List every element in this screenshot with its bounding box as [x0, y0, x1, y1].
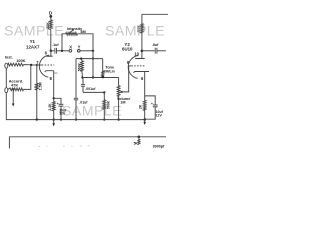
svg-text:Inst.: Inst.	[5, 54, 13, 59]
resistor 560K lower	[103, 92, 106, 119]
capacitor .1uf coupling	[54, 48, 56, 54]
svg-text:SAMPLE: SAMPLE	[4, 23, 64, 39]
op Y1 plate lead	[50, 51, 52, 56]
Y1 plate bar	[47, 55, 53, 57]
wire oscillator top row	[76, 58, 103, 60]
Y2 plate bar	[135, 58, 145, 60]
capacitor .001uf	[82, 78, 84, 85]
capacitor .5uf output	[154, 48, 156, 54]
node B	[92, 76, 94, 78]
ground arrow Y2	[144, 120, 146, 123]
wire plate node to cap	[51, 50, 54, 52]
svg-text:+: +	[151, 102, 153, 106]
wire D to resistor	[50, 16, 52, 19]
ground arrow below bus	[53, 120, 55, 124]
node 1.5M bus	[36, 118, 38, 120]
node Y1 cathode junction	[53, 97, 55, 99]
wire cap to 560K lower	[83, 91, 104, 93]
svg-text:+: +	[57, 102, 59, 106]
svg-text:2M/Lin: 2M/Lin	[104, 70, 115, 74]
svg-text:6: 6	[45, 50, 48, 55]
svg-text:2.2K: 2.2K	[48, 103, 52, 111]
svg-text:6: 6	[141, 76, 144, 81]
svg-text:.001uf: .001uf	[85, 87, 96, 91]
jack Inst	[5, 63, 8, 68]
node Y junction	[92, 50, 94, 52]
wire B+ top	[142, 13, 168, 15]
node intensity leg	[61, 50, 63, 52]
node D	[49, 15, 52, 18]
wire Y to junction	[80, 50, 93, 52]
wire intensity leg	[62, 34, 66, 51]
wire left leg with .01uf	[75, 59, 77, 98]
resistor 2K cathode Y2	[143, 96, 146, 120]
resistor 560K upper	[80, 57, 82, 59]
Y2 grid (dashed)	[131, 65, 145, 67]
wire grid lead Y2	[129, 65, 132, 67]
svg-text:22K: 22K	[46, 22, 50, 29]
wire resistor to plate node	[50, 30, 52, 51]
resistor B+ dropping	[141, 14, 144, 51]
potentiometer Volume 1M	[117, 78, 120, 120]
node Y2 plate	[141, 50, 144, 53]
node grid A	[30, 64, 32, 66]
svg-text:12AX7: 12AX7	[26, 44, 40, 49]
wire Y2 cathode down	[144, 72, 146, 96]
node rail junction	[138, 136, 141, 139]
wire bottom rail	[9, 137, 166, 149]
svg-text:100K: 100K	[137, 24, 141, 32]
svg-text:.1uf: .1uf	[52, 43, 59, 47]
wire 47K up to grid node	[24, 65, 31, 89]
resistor 2.2K cathode Y1	[52, 98, 55, 119]
svg-text:560K: 560K	[78, 63, 82, 72]
wire plate node to output cap	[142, 50, 155, 52]
Y2 plate lead	[141, 51, 143, 59]
svg-text:1M: 1M	[120, 101, 125, 105]
svg-text:1.5M: 1.5M	[38, 82, 42, 90]
wire ground bus	[6, 93, 144, 120]
Y1 grid (dashed)	[42, 64, 54, 66]
svg-text:100K: 100K	[16, 58, 25, 63]
svg-text:10: 10	[134, 52, 139, 57]
wiper Volume	[121, 66, 129, 92]
jack Accord	[5, 88, 8, 93]
svg-text:4M: 4M	[80, 29, 85, 34]
svg-text:SAMPLE: SAMPLE	[105, 24, 165, 40]
svg-text:SAMPLE: SAMPLE	[62, 104, 122, 120]
svg-text:3900pf: 3900pf	[153, 144, 165, 148]
svg-text:560K: 560K	[106, 100, 110, 109]
svg-text:2K: 2K	[139, 104, 143, 109]
node crossing junction	[92, 57, 94, 59]
faint marks below rail	[39, 145, 90, 148]
svg-text:Y: Y	[78, 45, 81, 50]
node plate Y1	[50, 50, 53, 53]
wire pot to right leg	[77, 34, 93, 51]
wiper arrow Intensity	[70, 30, 73, 33]
capacitor 10uf bypass (Y2)	[145, 96, 156, 105]
svg-text:47K: 47K	[11, 83, 18, 88]
capacitor 10uf bypass (Y1)	[59, 103, 64, 105]
wire cathode to bypass cap	[54, 98, 61, 104]
svg-text:12V: 12V	[59, 112, 66, 116]
wire grid node to grid	[31, 64, 42, 66]
wire down to 560K row	[92, 51, 94, 78]
capacitor .01uf	[74, 97, 78, 99]
potentiometer Tone 2M	[102, 59, 104, 77]
ground arrow (input)	[12, 89, 14, 104]
svg-text:Y1: Y1	[30, 39, 36, 44]
wire cap out	[157, 50, 166, 52]
Y1 cathode	[45, 71, 54, 72]
svg-text:X: X	[69, 45, 72, 50]
svg-text:D: D	[49, 11, 53, 16]
resistor 1.5M grid leak	[36, 65, 38, 83]
svg-text:.5uf: .5uf	[152, 43, 159, 47]
node Y2 cathode bus	[143, 118, 146, 121]
node tone junction	[101, 76, 104, 79]
wire 100K to grid node	[24, 64, 32, 66]
svg-text:.01uf: .01uf	[79, 100, 88, 104]
wire cap to X	[57, 50, 70, 52]
tube Y1 envelope arc	[39, 55, 49, 77]
Y2 cathode	[134, 72, 149, 73]
resistor 5K (rail)	[138, 137, 140, 145]
heater stub	[54, 72, 57, 74]
wire Y1 cathode down	[53, 71, 55, 99]
node 1.5M top	[36, 64, 38, 66]
node 47K junction	[12, 88, 14, 90]
resistor 22K (plate load Y1)	[49, 20, 52, 30]
resistor 100K	[8, 63, 24, 66]
svg-text:12V: 12V	[156, 113, 163, 117]
svg-text:6U10: 6U10	[122, 46, 133, 51]
resistor 47K	[8, 88, 24, 91]
svg-text:5K: 5K	[134, 141, 139, 145]
tube Y2 envelope arc	[128, 56, 138, 79]
potentiometer Intensity 4M	[66, 32, 78, 35]
wire jack column	[5, 68, 7, 88]
wire middle row	[82, 77, 118, 79]
svg-text:8: 8	[50, 76, 53, 81]
